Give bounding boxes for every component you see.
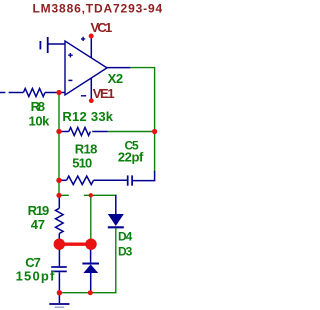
svg-text:47: 47 — [31, 217, 45, 232]
svg-text:D4: D4 — [118, 229, 133, 243]
svg-text:22pf: 22pf — [118, 150, 144, 165]
svg-text:10k: 10k — [29, 114, 51, 129]
svg-text:X2: X2 — [108, 71, 123, 86]
svg-text:VE1: VE1 — [93, 86, 115, 101]
svg-text:VC1: VC1 — [91, 20, 112, 35]
svg-text:R12 33k: R12 33k — [62, 109, 113, 124]
svg-text:510: 510 — [72, 156, 92, 171]
svg-text:LM3886,TDA7293-94: LM3886,TDA7293-94 — [33, 2, 164, 16]
svg-text:R18: R18 — [75, 141, 97, 156]
svg-text:D3: D3 — [118, 244, 133, 258]
svg-text:R8: R8 — [31, 99, 45, 114]
svg-text:R19: R19 — [28, 203, 49, 218]
svg-text:150pf: 150pf — [16, 269, 56, 284]
